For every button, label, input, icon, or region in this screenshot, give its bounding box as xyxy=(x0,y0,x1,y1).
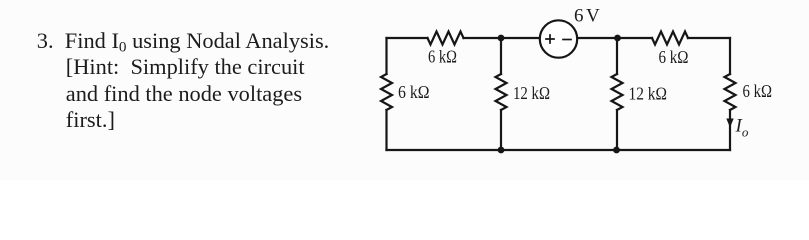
wire: branch 2 bottom xyxy=(500,110,502,150)
wire: right edge bottom with Io xyxy=(729,110,731,150)
problem statement text xyxy=(37,28,329,133)
wire: top rail to node A xyxy=(464,37,540,39)
minus sign xyxy=(563,39,571,41)
junction dot bottom left xyxy=(498,147,505,154)
node B junction dot top xyxy=(614,35,621,42)
wire: branch 3 top xyxy=(616,38,618,74)
wire: branch 2 top xyxy=(500,38,502,74)
svg-text:12 kΩ: 12 kΩ xyxy=(513,83,550,103)
resistor 6k top-left xyxy=(428,32,464,45)
resistor 12k branch 2 xyxy=(496,74,507,110)
resistor 6k left branch xyxy=(381,74,392,110)
node A junction dot top xyxy=(498,35,505,42)
wire: top rail source to node B xyxy=(578,37,652,39)
svg-text:6: 6 xyxy=(574,6,584,27)
resistor 6k top-right xyxy=(652,32,688,45)
wire: bottom rail xyxy=(387,149,731,151)
wire: left edge top xyxy=(385,38,387,74)
voltage source 6V xyxy=(540,20,577,57)
wire: top rail left segment xyxy=(387,37,428,39)
svg-text:6 kΩ: 6 kΩ xyxy=(743,81,773,101)
svg-text:V: V xyxy=(586,6,600,27)
wire: top rail right segment xyxy=(688,37,730,39)
svg-text:6 kΩ: 6 kΩ xyxy=(428,47,457,67)
svg-text:12 kΩ: 12 kΩ xyxy=(629,83,668,103)
svg-text:Io: Io xyxy=(735,116,749,140)
wire: left edge bottom xyxy=(385,110,387,150)
svg-text:6 kΩ: 6 kΩ xyxy=(659,47,689,67)
wire: right edge top xyxy=(729,38,731,74)
Io arrowhead xyxy=(726,119,733,128)
plus sign xyxy=(546,35,554,43)
wire: branch 3 bottom xyxy=(616,110,618,150)
resistor 6k right branch xyxy=(725,74,736,110)
resistor 12k branch 3 xyxy=(612,74,623,110)
svg-text:6 kΩ: 6 kΩ xyxy=(398,82,430,102)
junction dot bottom right xyxy=(613,147,620,154)
